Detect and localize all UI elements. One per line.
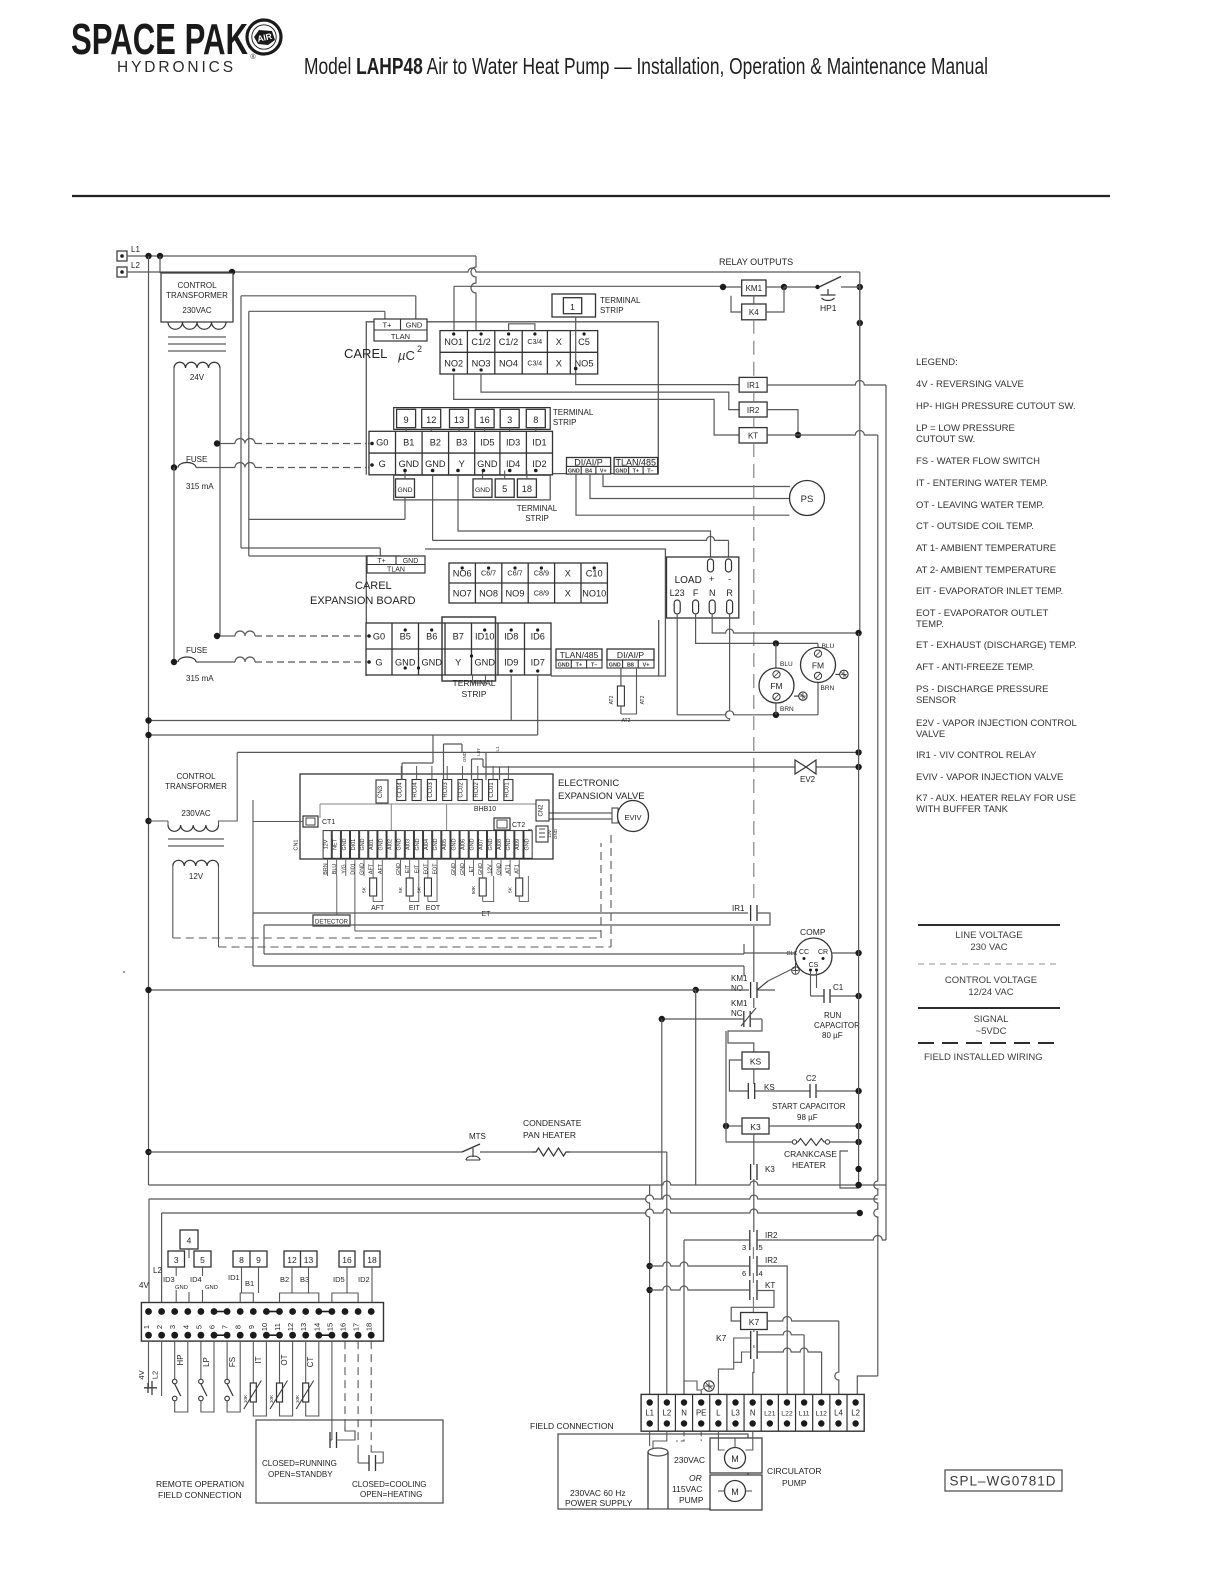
svg-text:NO3: NO3 bbox=[472, 358, 491, 368]
svg-text:AFT: AFT bbox=[369, 863, 375, 874]
svg-text:IR2: IR2 bbox=[765, 1256, 778, 1265]
svg-text:9: 9 bbox=[404, 415, 409, 425]
svg-text:Model LAHP48 Air to Water Heat: Model LAHP48 Air to Water Heat Pump — In… bbox=[304, 53, 988, 79]
svg-text:TRANSFORMER: TRANSFORMER bbox=[166, 291, 228, 300]
svg-text:17: 17 bbox=[352, 1323, 361, 1331]
svg-text:CLOSED=RUNNING: CLOSED=RUNNING bbox=[262, 1459, 337, 1468]
svg-text:PUMP: PUMP bbox=[782, 1478, 807, 1488]
svg-text:KM1: KM1 bbox=[731, 974, 748, 983]
svg-text:RC02: RC02 bbox=[474, 782, 480, 798]
svg-text:3: 3 bbox=[507, 415, 512, 425]
svg-text:TEMP.: TEMP. bbox=[916, 619, 944, 630]
svg-text:AI04: AI04 bbox=[424, 839, 430, 850]
svg-text:12V: 12V bbox=[324, 839, 330, 849]
svg-text:TERMINAL: TERMINAL bbox=[453, 678, 496, 688]
svg-text:CLOSED=COOLING: CLOSED=COOLING bbox=[352, 1480, 426, 1489]
svg-text:L21: L21 bbox=[764, 1411, 776, 1418]
svg-text:STRIP: STRIP bbox=[525, 514, 549, 523]
svg-text:EVIV - VAPOR INJECTION VALVE: EVIV - VAPOR INJECTION VALVE bbox=[916, 772, 1063, 783]
svg-text:X: X bbox=[565, 568, 571, 578]
svg-text:GND: GND bbox=[475, 487, 490, 494]
svg-text:L4: L4 bbox=[834, 1409, 843, 1418]
svg-text:IR1: IR1 bbox=[732, 904, 745, 913]
svg-text:PS: PS bbox=[801, 494, 814, 505]
svg-text:C8/9: C8/9 bbox=[534, 569, 549, 578]
svg-text:ID2: ID2 bbox=[532, 459, 546, 469]
svg-text:LOAD: LOAD bbox=[675, 575, 702, 586]
svg-text:STRIP: STRIP bbox=[600, 306, 624, 315]
svg-text:N: N bbox=[750, 1409, 756, 1418]
svg-text:START CAPACITOR: START CAPACITOR bbox=[772, 1102, 846, 1111]
svg-text:G: G bbox=[379, 459, 386, 469]
svg-text:GND: GND bbox=[558, 662, 570, 668]
svg-text:4: 4 bbox=[181, 1325, 190, 1329]
svg-text:CRANKCASE: CRANKCASE bbox=[784, 1149, 837, 1159]
svg-text:GND: GND bbox=[470, 838, 476, 850]
svg-text:GND: GND bbox=[422, 657, 443, 667]
svg-text:NET: NET bbox=[333, 838, 339, 849]
svg-text:16: 16 bbox=[479, 415, 489, 425]
svg-text:TERMINAL: TERMINAL bbox=[517, 504, 558, 513]
svg-text:TLAN: TLAN bbox=[387, 567, 405, 574]
svg-text:12/24 VAC: 12/24 VAC bbox=[968, 987, 1013, 998]
svg-text:NO10: NO10 bbox=[582, 588, 606, 598]
svg-text:L2: L2 bbox=[131, 261, 140, 270]
svg-text:L2: L2 bbox=[851, 1409, 860, 1418]
svg-text:REMOTE OPERATION: REMOTE OPERATION bbox=[156, 1479, 244, 1489]
svg-text:13: 13 bbox=[304, 1255, 314, 1265]
svg-text:C1: C1 bbox=[833, 983, 844, 992]
svg-text:C3/4: C3/4 bbox=[527, 361, 542, 368]
svg-text:KT: KT bbox=[765, 1281, 775, 1290]
svg-text:EIT: EIT bbox=[414, 864, 420, 873]
svg-text:CAREL: CAREL bbox=[344, 346, 387, 361]
svg-text:AFT: AFT bbox=[378, 863, 384, 874]
svg-text:FM: FM bbox=[812, 660, 824, 670]
svg-text:10: 10 bbox=[260, 1323, 269, 1331]
svg-text:CC04: CC04 bbox=[397, 782, 403, 798]
svg-text:2: 2 bbox=[417, 344, 422, 354]
svg-text:ID4: ID4 bbox=[190, 1275, 202, 1284]
svg-text:K4: K4 bbox=[749, 308, 759, 317]
svg-text:9: 9 bbox=[247, 1325, 256, 1329]
svg-text:RC04: RC04 bbox=[413, 782, 419, 798]
svg-text:50K: 50K bbox=[471, 885, 477, 894]
svg-text:12V: 12V bbox=[487, 864, 493, 874]
svg-text:ID10: ID10 bbox=[475, 631, 494, 641]
svg-text:B7: B7 bbox=[453, 631, 464, 641]
svg-text:TLAN/485: TLAN/485 bbox=[616, 457, 657, 467]
svg-text:5K: 5K bbox=[362, 886, 368, 893]
svg-text:7: 7 bbox=[221, 1325, 230, 1329]
svg-text:MTS: MTS bbox=[469, 1132, 486, 1141]
svg-text:ID5: ID5 bbox=[480, 437, 494, 447]
svg-text:LINE VOLTAGE: LINE VOLTAGE bbox=[955, 930, 1022, 941]
svg-text:AI05: AI05 bbox=[442, 839, 448, 850]
svg-text:4V: 4V bbox=[139, 1281, 149, 1290]
svg-text:GND: GND bbox=[395, 657, 416, 667]
svg-text:TERMINAL: TERMINAL bbox=[553, 408, 594, 417]
svg-text:ELECTRONIC: ELECTRONIC bbox=[558, 778, 619, 789]
svg-text:K3: K3 bbox=[765, 1165, 775, 1174]
svg-text:G: G bbox=[375, 657, 382, 667]
svg-text:KM1: KM1 bbox=[731, 999, 748, 1008]
svg-text:DI01: DI01 bbox=[351, 839, 357, 850]
svg-text:230 VAC: 230 VAC bbox=[970, 942, 1007, 953]
svg-text:AI02: AI02 bbox=[387, 839, 393, 850]
svg-text:NO7: NO7 bbox=[453, 588, 472, 598]
svg-text:CONTROL: CONTROL bbox=[176, 772, 216, 781]
svg-text:PAN HEATER: PAN HEATER bbox=[523, 1130, 576, 1140]
svg-text:~5VDC: ~5VDC bbox=[976, 1026, 1007, 1037]
svg-text:CC02: CC02 bbox=[459, 782, 465, 798]
svg-text:C10: C10 bbox=[586, 568, 603, 578]
svg-text:F: F bbox=[693, 588, 699, 598]
svg-text:230VAC: 230VAC bbox=[181, 809, 210, 818]
svg-text:GND: GND bbox=[425, 459, 446, 469]
svg-text:AI03: AI03 bbox=[406, 839, 412, 850]
svg-text:CN2: CN2 bbox=[539, 804, 545, 817]
svg-text:PS - DISCHARGE PRESSURE: PS - DISCHARGE PRESSURE bbox=[916, 684, 1049, 695]
svg-text:CN1: CN1 bbox=[294, 839, 300, 850]
svg-text:18: 18 bbox=[522, 484, 532, 494]
svg-text:C2: C2 bbox=[806, 1074, 817, 1083]
svg-text:GND: GND bbox=[460, 863, 466, 875]
svg-text:C3/4: C3/4 bbox=[527, 339, 542, 346]
svg-text:CC: CC bbox=[799, 949, 809, 956]
svg-text:BLK: BLK bbox=[787, 951, 798, 957]
svg-text:GND: GND bbox=[175, 1285, 188, 1291]
svg-text:B6: B6 bbox=[426, 631, 437, 641]
svg-text:CUTOUT SW.: CUTOUT SW. bbox=[916, 434, 975, 445]
svg-text:IR2: IR2 bbox=[765, 1231, 778, 1240]
svg-text:WITH BUFFER TANK: WITH BUFFER TANK bbox=[916, 804, 1009, 815]
svg-text:B1: B1 bbox=[403, 437, 414, 447]
svg-text:4V: 4V bbox=[137, 1370, 146, 1379]
svg-text:230VAC 60 Hz: 230VAC 60 Hz bbox=[570, 1488, 626, 1498]
svg-text:L3: L3 bbox=[731, 1409, 740, 1418]
svg-text:315 mA: 315 mA bbox=[186, 674, 214, 683]
svg-text:R: R bbox=[726, 588, 733, 598]
svg-text:24V: 24V bbox=[190, 373, 205, 382]
svg-text:N: N bbox=[709, 588, 716, 598]
svg-text:B3: B3 bbox=[456, 437, 467, 447]
svg-text:11: 11 bbox=[273, 1323, 282, 1331]
svg-text:SPACE PAK: SPACE PAK bbox=[71, 15, 248, 64]
svg-text:AT1: AT1 bbox=[515, 864, 521, 874]
svg-text:RELAY OUTPUTS: RELAY OUTPUTS bbox=[719, 257, 793, 267]
svg-text:AT 1- AMBIENT TEMPERATURE: AT 1- AMBIENT TEMPERATURE bbox=[916, 543, 1056, 554]
svg-text:HP- HIGH PRESSURE CUTOUT SW.: HP- HIGH PRESSURE CUTOUT SW. bbox=[916, 401, 1076, 412]
svg-text:M: M bbox=[731, 1487, 739, 1497]
svg-text:SIGNAL: SIGNAL bbox=[974, 1014, 1009, 1025]
svg-text:CIRCULATOR: CIRCULATOR bbox=[767, 1466, 821, 1476]
svg-text:CS: CS bbox=[809, 962, 819, 969]
svg-text:EIT: EIT bbox=[409, 905, 421, 912]
svg-text:CAPACITOR: CAPACITOR bbox=[814, 1021, 860, 1030]
svg-text:GND: GND bbox=[478, 863, 484, 875]
svg-text:OPEN=STANDBY: OPEN=STANDBY bbox=[268, 1470, 333, 1479]
svg-text:EOT: EOT bbox=[433, 863, 439, 875]
svg-text:®: ® bbox=[250, 53, 256, 61]
svg-text:CR: CR bbox=[818, 949, 828, 956]
svg-text:CT - OUTSIDE COIL TEMP.: CT - OUTSIDE COIL TEMP. bbox=[916, 521, 1034, 532]
svg-text:12: 12 bbox=[286, 1323, 295, 1331]
svg-text:KS: KS bbox=[750, 1057, 762, 1067]
svg-text:GND: GND bbox=[553, 828, 558, 839]
svg-text:FIELD CONNECTION: FIELD CONNECTION bbox=[530, 1421, 614, 1431]
svg-text:BLU: BLU bbox=[822, 643, 835, 650]
svg-text:B3: B3 bbox=[300, 1275, 309, 1284]
svg-text:RUN: RUN bbox=[824, 1011, 842, 1020]
svg-text:IR1 - VIV CONTROL RELAY: IR1 - VIV CONTROL RELAY bbox=[916, 750, 1037, 761]
svg-text:BRN: BRN bbox=[821, 685, 835, 692]
svg-text:V+: V+ bbox=[600, 468, 607, 474]
svg-text:98 µF: 98 µF bbox=[797, 1113, 818, 1122]
svg-text:8: 8 bbox=[239, 1255, 244, 1265]
svg-text:5: 5 bbox=[759, 1243, 763, 1252]
svg-text:GND: GND bbox=[475, 657, 496, 667]
svg-text:IR1: IR1 bbox=[747, 381, 760, 390]
svg-text:5K: 5K bbox=[416, 886, 422, 893]
svg-text:ID2: ID2 bbox=[358, 1275, 370, 1284]
svg-text:BRN: BRN bbox=[780, 706, 794, 713]
svg-text:CONTROL VOLTAGE: CONTROL VOLTAGE bbox=[945, 975, 1037, 986]
svg-text:K3: K3 bbox=[750, 1122, 761, 1132]
svg-text:X: X bbox=[556, 337, 562, 347]
svg-text:ET: ET bbox=[482, 911, 492, 918]
svg-text:AT1: AT1 bbox=[506, 864, 512, 874]
svg-text:CAREL: CAREL bbox=[355, 580, 392, 592]
svg-text:CT1: CT1 bbox=[322, 819, 335, 826]
svg-text:GND: GND bbox=[378, 838, 384, 850]
svg-text:GND: GND bbox=[397, 487, 412, 494]
svg-text:SENSOR: SENSOR bbox=[916, 695, 956, 706]
svg-text:EOT - EVAPORATOR OUTLET: EOT - EVAPORATOR OUTLET bbox=[916, 608, 1049, 619]
svg-text:GND: GND bbox=[415, 838, 421, 850]
svg-text:NO5: NO5 bbox=[575, 358, 594, 368]
svg-text:EXPANSION BOARD: EXPANSION BOARD bbox=[310, 595, 416, 607]
svg-text:ID9: ID9 bbox=[504, 657, 518, 667]
svg-text:L1: L1 bbox=[645, 1409, 654, 1418]
svg-text:80 µF: 80 µF bbox=[822, 1031, 843, 1040]
svg-text:GND: GND bbox=[205, 1285, 218, 1291]
svg-text:L1: L1 bbox=[495, 746, 500, 752]
svg-text:10K: 10K bbox=[295, 1394, 301, 1403]
svg-text:TRANSFORMER: TRANSFORMER bbox=[165, 782, 227, 791]
svg-text:L2: L2 bbox=[151, 1371, 160, 1379]
svg-text:AI01: AI01 bbox=[369, 839, 375, 850]
svg-text:VALVE: VALVE bbox=[916, 729, 945, 740]
svg-text:B1: B1 bbox=[245, 1279, 254, 1288]
svg-text:L2: L2 bbox=[663, 1409, 672, 1418]
svg-text:BLU: BLU bbox=[780, 661, 793, 668]
svg-text:GND: GND bbox=[568, 468, 580, 474]
svg-text:G0: G0 bbox=[373, 631, 385, 641]
svg-text:ID5: ID5 bbox=[333, 1275, 345, 1284]
svg-text:Y: Y bbox=[455, 657, 461, 667]
svg-text:AI08: AI08 bbox=[497, 839, 503, 850]
svg-text:13: 13 bbox=[299, 1323, 308, 1331]
svg-text:FIELD CONNECTION: FIELD CONNECTION bbox=[158, 1490, 242, 1500]
svg-text:TLAN/485: TLAN/485 bbox=[560, 650, 599, 660]
svg-text:EIT: EIT bbox=[405, 864, 411, 873]
svg-text:CONTROL: CONTROL bbox=[177, 281, 217, 290]
svg-text:C1/2: C1/2 bbox=[499, 337, 518, 347]
svg-text:ET - EXHAUST (DISCHARGE) TEMP.: ET - EXHAUST (DISCHARGE) TEMP. bbox=[916, 640, 1077, 651]
svg-text:GND: GND bbox=[360, 863, 366, 875]
svg-text:GND: GND bbox=[524, 838, 530, 850]
svg-text:K7: K7 bbox=[749, 1317, 760, 1327]
svg-text:FUSE: FUSE bbox=[186, 646, 207, 655]
svg-text:STRIP: STRIP bbox=[461, 689, 486, 699]
svg-text:-: - bbox=[728, 574, 731, 584]
svg-text:OR: OR bbox=[689, 1473, 702, 1483]
svg-text:T+: T+ bbox=[383, 321, 393, 330]
svg-text:GND: GND bbox=[609, 662, 621, 668]
svg-text:L22: L22 bbox=[781, 1411, 793, 1418]
svg-text:B8: B8 bbox=[627, 662, 634, 668]
svg-text:2: 2 bbox=[155, 1325, 164, 1329]
svg-text:FIELD INSTALLED WIRING: FIELD INSTALLED WIRING bbox=[924, 1052, 1043, 1063]
svg-text:HEATER: HEATER bbox=[792, 1160, 826, 1170]
svg-text:AFT: AFT bbox=[371, 905, 385, 912]
svg-text:G0: G0 bbox=[376, 437, 388, 447]
svg-text:AI07: AI07 bbox=[479, 839, 485, 850]
svg-text:B2: B2 bbox=[430, 437, 441, 447]
svg-text:KM1: KM1 bbox=[746, 284, 763, 293]
svg-text:M: M bbox=[731, 1454, 739, 1464]
svg-text:1: 1 bbox=[142, 1325, 151, 1329]
svg-text:GND: GND bbox=[451, 838, 457, 850]
svg-text:NO9: NO9 bbox=[506, 588, 525, 598]
svg-text:IT: IT bbox=[254, 1356, 263, 1363]
svg-text:10K: 10K bbox=[243, 1394, 249, 1403]
svg-text:X: X bbox=[556, 358, 562, 368]
svg-text:ID3: ID3 bbox=[506, 437, 520, 447]
svg-text:E2V - VAPOR INJECTION CONTROL: E2V - VAPOR INJECTION CONTROL bbox=[916, 718, 1077, 729]
svg-text:HP: HP bbox=[176, 1354, 185, 1365]
svg-text:L1: L1 bbox=[131, 245, 140, 254]
svg-text:STRIP: STRIP bbox=[553, 418, 577, 427]
svg-text:GND: GND bbox=[488, 838, 494, 850]
svg-text:12: 12 bbox=[287, 1255, 297, 1265]
svg-text:EOT: EOT bbox=[423, 863, 429, 875]
svg-text:B2: B2 bbox=[280, 1275, 289, 1284]
svg-text:T+: T+ bbox=[576, 662, 582, 668]
svg-text:315 mA: 315 mA bbox=[186, 482, 214, 491]
svg-text:DI/AI/P: DI/AI/P bbox=[617, 650, 644, 660]
svg-text:Y/G: Y/G bbox=[341, 864, 347, 873]
svg-text:ID7: ID7 bbox=[531, 657, 545, 667]
svg-text:HYDRONICS: HYDRONICS bbox=[117, 59, 236, 76]
svg-text:BHB10: BHB10 bbox=[474, 806, 496, 813]
svg-text:AT2: AT2 bbox=[622, 718, 631, 724]
svg-text:C6/7: C6/7 bbox=[481, 569, 496, 578]
svg-text:GND: GND bbox=[396, 863, 402, 875]
svg-text:4V - REVERSING VALVE: 4V - REVERSING VALVE bbox=[916, 379, 1024, 390]
svg-text:9: 9 bbox=[256, 1255, 261, 1265]
svg-text:C8/9: C8/9 bbox=[534, 589, 549, 598]
svg-text:K7 - AUX. HEATER RELAY FOR USE: K7 - AUX. HEATER RELAY FOR USE bbox=[916, 793, 1076, 804]
svg-text:CC01: CC01 bbox=[489, 782, 495, 798]
svg-text:T+: T+ bbox=[633, 468, 639, 474]
svg-text:3: 3 bbox=[168, 1325, 177, 1329]
svg-text:CT: CT bbox=[306, 1357, 315, 1368]
svg-text:12V: 12V bbox=[189, 872, 204, 881]
svg-text:LP: LP bbox=[202, 1357, 211, 1367]
svg-text:Y: Y bbox=[459, 459, 465, 469]
svg-text:NO2: NO2 bbox=[444, 358, 463, 368]
svg-text:14: 14 bbox=[312, 1323, 321, 1331]
svg-text:5K: 5K bbox=[398, 886, 404, 893]
svg-text:GND: GND bbox=[406, 321, 423, 330]
svg-text:ID4: ID4 bbox=[506, 459, 520, 469]
svg-text:K7: K7 bbox=[716, 1333, 727, 1343]
svg-text:EV2: EV2 bbox=[800, 775, 816, 784]
svg-text:L2: L2 bbox=[153, 1266, 162, 1275]
svg-text:GND: GND bbox=[615, 468, 627, 474]
svg-text:X: X bbox=[565, 588, 571, 598]
svg-text:GND: GND bbox=[506, 838, 512, 850]
svg-text:115VAC: 115VAC bbox=[672, 1484, 702, 1494]
svg-text:RC01: RC01 bbox=[504, 782, 510, 798]
svg-text:C5: C5 bbox=[578, 337, 590, 347]
svg-text:230VAC: 230VAC bbox=[182, 306, 211, 315]
svg-text:N: N bbox=[681, 1409, 687, 1418]
svg-text:L12: L12 bbox=[816, 1411, 828, 1418]
svg-text:CT2: CT2 bbox=[512, 822, 525, 829]
svg-text:15: 15 bbox=[325, 1323, 334, 1331]
svg-text:ID6: ID6 bbox=[531, 631, 545, 641]
svg-text:LP = LOW PRESSURE: LP = LOW PRESSURE bbox=[916, 423, 1015, 434]
svg-text:FS: FS bbox=[228, 1357, 237, 1367]
svg-text:EXPANSION VALVE: EXPANSION VALVE bbox=[558, 791, 645, 802]
svg-text:4: 4 bbox=[187, 1236, 192, 1246]
svg-text:ID1: ID1 bbox=[228, 1273, 240, 1282]
svg-text:AT 2- AMBIENT TEMPERATURE: AT 2- AMBIENT TEMPERATURE bbox=[916, 565, 1056, 576]
svg-text:AT2: AT2 bbox=[640, 695, 646, 704]
svg-text:C6/7: C6/7 bbox=[507, 569, 522, 578]
svg-text:NO8: NO8 bbox=[479, 588, 498, 598]
svg-text:T+: T+ bbox=[377, 558, 385, 565]
svg-text:T–: T– bbox=[647, 468, 653, 474]
svg-text:GND: GND bbox=[462, 751, 467, 762]
svg-text:OT: OT bbox=[280, 1354, 289, 1365]
svg-text:IT - ENTERING WATER TEMP.: IT - ENTERING WATER TEMP. bbox=[916, 478, 1048, 489]
svg-text:µC: µC bbox=[398, 348, 415, 363]
svg-text:GND: GND bbox=[433, 838, 439, 850]
svg-text:T–: T– bbox=[591, 662, 597, 668]
svg-text:5: 5 bbox=[200, 1255, 205, 1265]
svg-text:18: 18 bbox=[365, 1323, 374, 1331]
svg-text:3: 3 bbox=[174, 1255, 179, 1265]
svg-text:AFT - ANTI-FREEZE TEMP.: AFT - ANTI-FREEZE TEMP. bbox=[916, 662, 1034, 673]
svg-text:KT: KT bbox=[748, 432, 758, 441]
svg-text:NO1: NO1 bbox=[444, 337, 463, 347]
svg-text:PUMP: PUMP bbox=[679, 1495, 704, 1505]
svg-text:8: 8 bbox=[533, 415, 538, 425]
svg-text:GND: GND bbox=[477, 459, 498, 469]
svg-text:6: 6 bbox=[208, 1325, 217, 1329]
svg-text:AT2: AT2 bbox=[609, 695, 615, 704]
svg-text:10K: 10K bbox=[269, 1394, 275, 1403]
svg-text:L: L bbox=[716, 1409, 721, 1418]
svg-text:TERMINAL: TERMINAL bbox=[600, 296, 641, 305]
svg-text:5K: 5K bbox=[508, 886, 514, 893]
svg-text:13: 13 bbox=[454, 415, 464, 425]
svg-text:SPL–WG0781D: SPL–WG0781D bbox=[949, 1474, 1056, 1489]
